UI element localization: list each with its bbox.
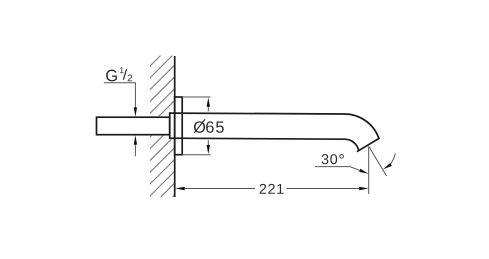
escutcheon flange: [175, 97, 183, 155]
spout tube: [170, 113, 379, 152]
label G 1/2: [106, 67, 132, 81]
diameter slash: [194, 119, 205, 132]
letter G: [106, 70, 117, 82]
221 left arrow: [175, 187, 184, 190]
leader line of G 1/2: [104, 83, 136, 110]
30deg leader arrowhead: [359, 169, 369, 174]
superscript 1: [120, 67, 124, 73]
arrow up to pipe bottom: [134, 143, 136, 157]
supply pipe G1/2: [97, 117, 170, 135]
arc arrowhead: [383, 163, 392, 169]
wall face line: [174, 56, 176, 197]
arrow down to pipe top: [134, 107, 137, 116]
label 221: [260, 184, 284, 194]
221 dimension line right: [287, 188, 362, 190]
fraction slash: [123, 69, 126, 79]
wall hatching: [7, 56, 314, 198]
extension line top (O65): [182, 96, 210, 98]
degree sign: [339, 154, 343, 158]
spout back end: [169, 112, 171, 139]
extension line bottom (O65): [182, 154, 210, 156]
digits 65: [206, 121, 224, 133]
O65 down arrow: [207, 140, 209, 147]
label 30deg: [322, 154, 338, 164]
label O65: [194, 121, 205, 133]
extension line at spout tip: [368, 146, 370, 194]
spout bottom edge: [170, 138, 359, 151]
30deg leader: [315, 167, 362, 172]
221 right arrow: [359, 187, 368, 190]
221 dimension line left: [184, 188, 256, 190]
30deg angle arc: [388, 153, 395, 167]
subscript 2: [128, 75, 132, 82]
30deg slant line: [369, 147, 387, 176]
O65 up arrow: [207, 105, 209, 111]
